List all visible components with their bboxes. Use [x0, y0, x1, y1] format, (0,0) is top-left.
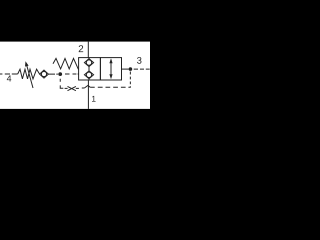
wire port2 stub inside body: [88, 58, 90, 80]
pilot dashed wire node B down: [128, 72, 130, 88]
pilot dashed wire bottom right run: [90, 86, 126, 88]
label port 1: [92, 96, 96, 102]
label port 2: [79, 45, 84, 52]
port 3 wire: [122, 68, 129, 70]
check valve CV2 diamond: [84, 59, 93, 67]
port 3 dashed external wire: [134, 68, 150, 70]
pilot dashed wire node A down: [60, 79, 63, 89]
adjustment arrow head: [25, 61, 29, 66]
check valve CV1 ball: [41, 72, 46, 77]
port 1 wire: [87, 80, 89, 109]
port 4 dashed line: [0, 73, 18, 75]
check valve CV2 ball: [86, 60, 91, 65]
label port 4: [7, 75, 11, 81]
drawing background band: [0, 42, 150, 109]
check valve CV1 diamond: [40, 70, 49, 78]
wire CV1 to node A: [48, 73, 58, 75]
pilot dashed wire bottom left run: [65, 87, 85, 89]
valve body right square: [100, 58, 121, 80]
pilot dashed wire node A to valve body: [65, 73, 79, 75]
node A junction dot: [58, 72, 62, 76]
label port 3: [137, 57, 141, 64]
check valve CV3 ball: [86, 72, 91, 77]
node B junction dot: [129, 67, 133, 71]
spring 2 (spool spring): [53, 58, 79, 69]
valve body left square: [79, 58, 101, 80]
orifice X symbol: [68, 86, 76, 90]
check valve CV3 diamond: [84, 71, 93, 79]
adjustment arrow shaft: [27, 65, 33, 88]
pilot line hop over port 1 wire: [85, 85, 91, 88]
port 2 wire: [87, 42, 89, 58]
metering double arrow shaft: [110, 62, 112, 77]
metering arrow head down: [109, 74, 112, 79]
spring (adjustable relief spring): [18, 69, 40, 79]
metering arrow head up: [109, 58, 112, 63]
